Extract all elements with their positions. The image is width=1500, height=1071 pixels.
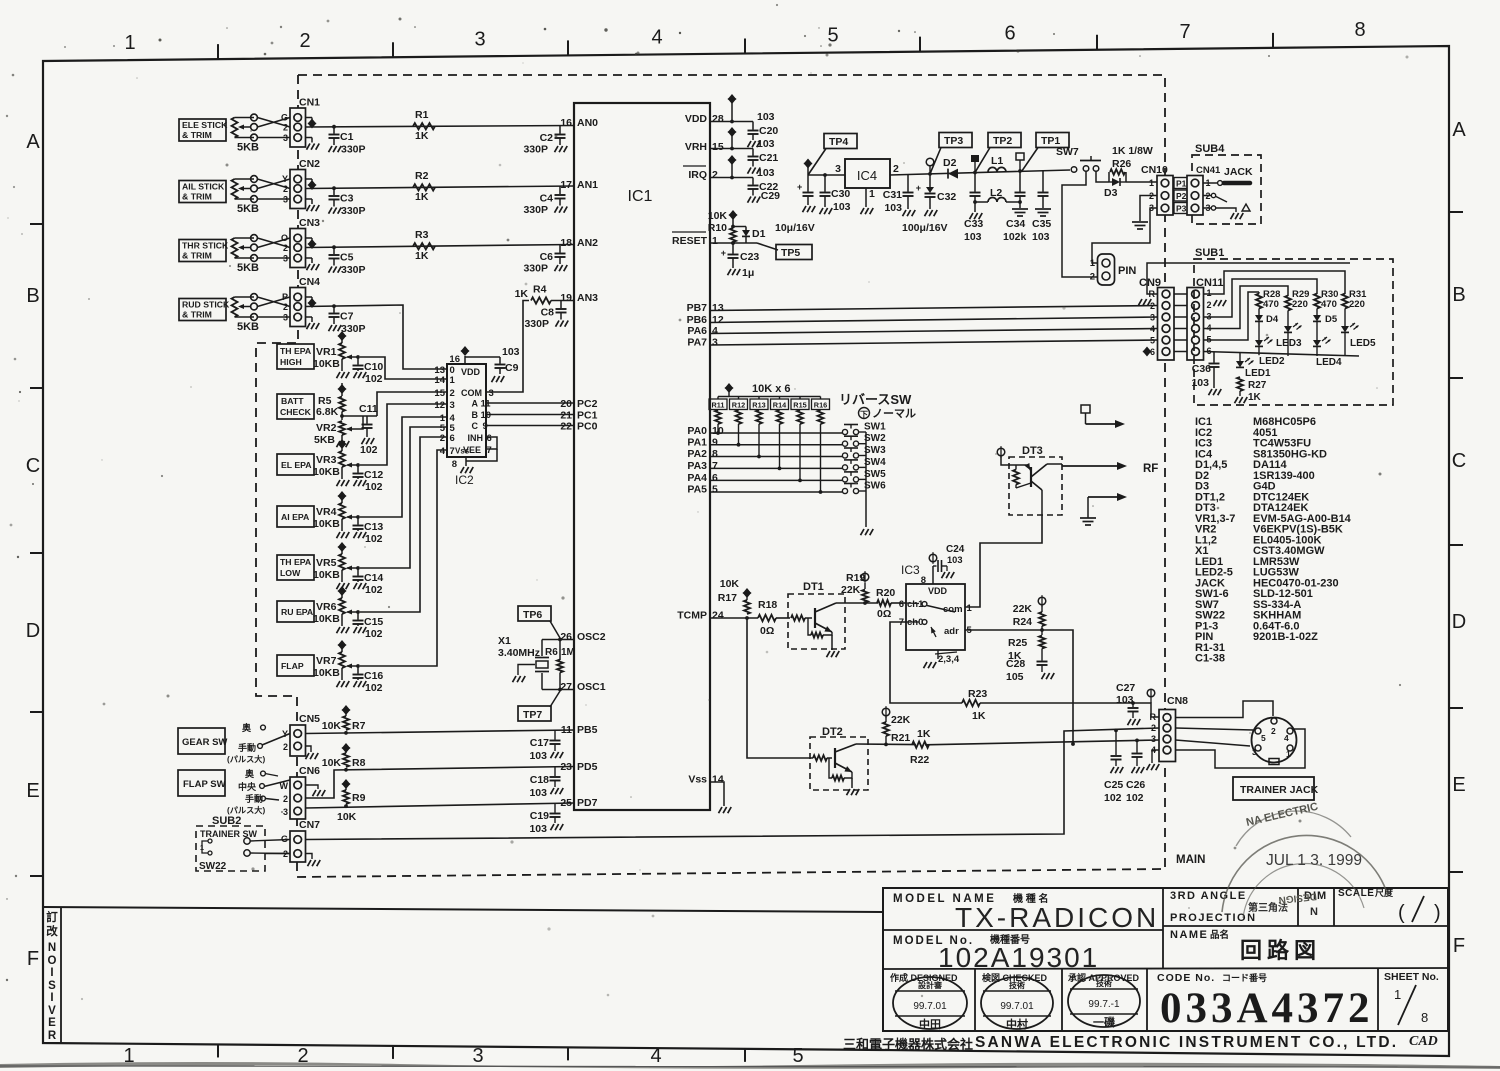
capacitor C14 102 xyxy=(356,566,360,570)
svg-text:AIL STICK: AIL STICK xyxy=(182,182,225,192)
power rail after IC4 xyxy=(890,170,1070,175)
svg-text:1: 1 xyxy=(1207,288,1212,298)
svg-text:R15: R15 xyxy=(793,401,806,410)
wire PA3 line xyxy=(710,467,842,469)
capacitor C25 102 xyxy=(1114,729,1118,733)
diode D3 xyxy=(1112,178,1120,186)
LED1 LMR53W xyxy=(1239,353,1241,361)
svg-text:2: 2 xyxy=(712,169,718,181)
digital transistor DT3 DTA124EK xyxy=(1009,457,1062,515)
wire PA4 line xyxy=(710,479,842,481)
MAIN board dashed border xyxy=(256,75,1165,877)
wire CN11 pin4 to R29 xyxy=(1204,286,1289,329)
svg-text:R: R xyxy=(1150,712,1157,722)
svg-text:PA0: PA0 xyxy=(687,425,707,437)
svg-text:102k: 102k xyxy=(1003,231,1027,243)
connector CN4 xyxy=(290,288,306,327)
svg-text:C30: C30 xyxy=(831,188,850,200)
capacitor C31 100u16V xyxy=(907,175,909,192)
svg-text:R23: R23 xyxy=(968,688,987,700)
svg-text:コード番号: コード番号 xyxy=(1222,972,1267,983)
svg-text:R7: R7 xyxy=(352,720,366,732)
resistor R1 1K xyxy=(413,123,435,129)
wire R5 VR2 junction to IC2 xyxy=(340,414,344,418)
wire IC3 adr to R24 R25 xyxy=(965,629,1042,631)
svg-text:PC0: PC0 xyxy=(577,421,598,433)
svg-text:B: B xyxy=(1452,284,1465,306)
svg-text:TP2: TP2 xyxy=(993,135,1012,147)
svg-text:SW7: SW7 xyxy=(1056,146,1079,158)
svg-text:D3: D3 xyxy=(1104,187,1118,199)
svg-text:1K: 1K xyxy=(917,728,931,740)
test point TP5 xyxy=(757,243,778,250)
capacitor C5 330P xyxy=(333,247,335,254)
wire PB6 to CN9 xyxy=(710,317,1158,323)
svg-text:TRAINER JACK: TRAINER JACK xyxy=(1240,784,1319,796)
svg-text:D: D xyxy=(26,620,40,642)
svg-text:3: 3 xyxy=(835,163,841,175)
svg-text:12: 12 xyxy=(434,400,445,411)
svg-text:103: 103 xyxy=(884,202,902,214)
trim contacts ELE STICK xyxy=(251,114,258,121)
normal label with circle xyxy=(859,408,870,419)
svg-text:VR7: VR7 xyxy=(316,655,337,667)
svg-text:C21: C21 xyxy=(759,152,778,164)
svg-text:102A19301: 102A19301 xyxy=(938,942,1099,973)
connector CN3 xyxy=(290,229,306,268)
ground mark CN9 pin2 xyxy=(1139,299,1143,305)
test point marker open square xyxy=(1018,169,1022,173)
svg-text:7: 7 xyxy=(450,446,455,457)
wire CN11 pin1 to R31 xyxy=(1204,271,1346,294)
svg-text:下: 下 xyxy=(860,410,868,419)
svg-text:103: 103 xyxy=(1032,231,1050,243)
svg-text:103: 103 xyxy=(757,111,775,123)
svg-text:Y: Y xyxy=(282,174,288,184)
capacitor C17 103 xyxy=(554,730,556,739)
svg-text:8: 8 xyxy=(1421,1010,1428,1025)
svg-text:B: B xyxy=(472,410,479,420)
svg-text:VDD: VDD xyxy=(928,586,948,596)
svg-text:+: + xyxy=(721,248,726,258)
wire TCMP output xyxy=(710,617,758,619)
grid row ticks left xyxy=(30,223,43,225)
capacitor C3 330P xyxy=(333,188,335,195)
svg-text:6: 6 xyxy=(1004,23,1015,45)
svg-text:VR5: VR5 xyxy=(316,557,337,569)
ground DT2 xyxy=(847,789,851,795)
test point marker at C32 xyxy=(928,172,932,176)
resistor R28 470 xyxy=(1256,294,1262,309)
wire CN9 R pin to SUB1 xyxy=(1147,263,1350,294)
svg-text:TH EPA: TH EPA xyxy=(280,557,312,567)
wire PA1 line xyxy=(710,444,842,446)
svg-text:10KB: 10KB xyxy=(313,667,340,679)
svg-text:100μ/16V: 100μ/16V xyxy=(902,222,948,234)
resistor R2 1K xyxy=(413,184,435,190)
resistor R20 0ohm xyxy=(877,600,891,606)
svg-text:R21: R21 xyxy=(891,732,910,744)
svg-text:CODE No.: CODE No. xyxy=(1157,972,1215,984)
wire CN8 pin4 ground xyxy=(1152,750,1159,763)
resistor R14 10K xyxy=(779,397,781,400)
svg-text:CN2: CN2 xyxy=(299,158,320,170)
svg-text:GEAR SW: GEAR SW xyxy=(182,737,227,748)
wire VDD pin28 decoupling xyxy=(710,121,753,123)
svg-text:3: 3 xyxy=(283,313,288,323)
capacitor C23 1u xyxy=(731,241,735,245)
wire OSC2 xyxy=(542,639,574,641)
wire CN7 to CN8 pin2 xyxy=(306,728,1160,840)
potentiometer RUD STICK 5KB xyxy=(232,297,238,317)
svg-text:5KB: 5KB xyxy=(314,434,335,446)
IC3 ground pins 2 3 4 xyxy=(937,650,939,659)
svg-text:0Ω: 0Ω xyxy=(877,608,891,620)
svg-text:adr: adr xyxy=(944,626,959,637)
svg-text:SW4: SW4 xyxy=(864,457,886,468)
svg-text:R2: R2 xyxy=(415,170,429,182)
grid column ticks top xyxy=(217,44,219,59)
svg-text:103: 103 xyxy=(502,346,520,358)
ground at CN2 pin3 xyxy=(306,198,313,200)
adjust pot label box TH EPA xyxy=(277,555,314,580)
svg-text:VRH: VRH xyxy=(685,141,707,153)
adjust pot label box TH EPA xyxy=(277,344,314,369)
svg-text:PA5: PA5 xyxy=(687,484,707,496)
svg-text:SUB4: SUB4 xyxy=(1195,143,1225,155)
wire CN10 pin2 to ground xyxy=(1140,196,1157,222)
svg-text:O: O xyxy=(281,233,288,243)
svg-text:5: 5 xyxy=(827,25,838,47)
svg-text:一磯: 一磯 xyxy=(1093,1015,1115,1029)
SUB2 dashed box xyxy=(196,826,265,871)
svg-text:AN0: AN0 xyxy=(577,117,598,129)
svg-text:1: 1 xyxy=(1149,178,1154,188)
svg-text:F: F xyxy=(27,948,39,970)
svg-text:IRQ: IRQ xyxy=(688,169,707,181)
svg-text:4: 4 xyxy=(651,26,662,48)
svg-text:R19: R19 xyxy=(846,572,865,584)
crossed wires ELE STICK to CN1 xyxy=(257,118,290,128)
resistor R18 0ohm xyxy=(758,615,776,621)
svg-text:0Ω: 0Ω xyxy=(760,625,774,637)
svg-text:RU EPA: RU EPA xyxy=(281,607,314,617)
wire CN8 pin3 to trainer jack pin3 xyxy=(1176,740,1251,746)
resistor R9 10K xyxy=(343,790,349,804)
svg-text:103: 103 xyxy=(833,201,851,213)
wire IC2 COM to AN3 via R4 xyxy=(486,301,529,393)
svg-text:設計審: 設計審 xyxy=(918,980,943,990)
wire IC3 ch0 to R23 xyxy=(890,622,962,703)
svg-text:330P: 330P xyxy=(341,264,366,276)
svg-text:R16: R16 xyxy=(814,401,827,410)
trainer jack label xyxy=(1233,777,1314,800)
svg-text:PC2: PC2 xyxy=(577,398,598,410)
svg-text:470: 470 xyxy=(1321,299,1337,310)
svg-text:16: 16 xyxy=(560,117,572,129)
svg-text:17: 17 xyxy=(560,179,572,191)
svg-text:P1: P1 xyxy=(1176,179,1187,189)
svg-text:JACK: JACK xyxy=(1224,166,1253,178)
svg-text:C11: C11 xyxy=(359,403,378,415)
svg-text:R3: R3 xyxy=(415,229,429,241)
svg-text:D5: D5 xyxy=(1325,314,1338,325)
svg-text:CN4: CN4 xyxy=(299,276,320,288)
svg-text:103: 103 xyxy=(757,167,775,179)
multiplexer IC2 box xyxy=(447,364,486,457)
svg-text:COM: COM xyxy=(461,388,482,398)
wire CN4 signal to IC2 mux input 0 xyxy=(306,305,448,369)
svg-text:330P: 330P xyxy=(523,204,548,216)
switch SW6 xyxy=(842,488,847,493)
svg-text:TP7: TP7 xyxy=(523,709,542,721)
capacitor C4 330P xyxy=(559,186,561,194)
svg-text:R11: R11 xyxy=(712,401,725,410)
resistor R21 22K xyxy=(882,708,890,716)
svg-text:6: 6 xyxy=(450,433,455,444)
supply arrow at CN1 pin1 xyxy=(306,117,313,119)
resistor R27 1K xyxy=(1237,377,1243,391)
wire CN8 pin2 to trainer jack pin5 xyxy=(1176,728,1254,730)
svg-text:C34: C34 xyxy=(1006,218,1025,230)
svg-text:3.40MHz: 3.40MHz xyxy=(498,647,540,659)
svg-text:R1: R1 xyxy=(415,109,429,121)
capacitor C35 103 xyxy=(1042,170,1044,191)
svg-text:SANWA ELECTRONIC INSTRUMENT CO: SANWA ELECTRONIC INSTRUMENT CO., LTD. xyxy=(975,1034,1398,1051)
svg-text:1: 1 xyxy=(1394,987,1401,1002)
wire IC2 ch3 to VR3 xyxy=(360,404,447,465)
svg-text:103: 103 xyxy=(964,231,982,243)
svg-text:N: N xyxy=(1310,906,1318,918)
svg-text:10: 10 xyxy=(481,410,492,421)
resistor R15 10K xyxy=(799,397,801,400)
potentiometer AIL STICK 5KB xyxy=(232,179,238,199)
trainer switch SW22 xyxy=(208,839,212,843)
grid column ticks bottom xyxy=(217,1044,219,1057)
svg-text:8: 8 xyxy=(1354,19,1365,41)
svg-text:R20: R20 xyxy=(876,587,895,599)
capacitor C8 330P xyxy=(560,301,562,309)
svg-text:3: 3 xyxy=(474,28,485,50)
stick unit AIL STICK label box xyxy=(179,181,226,203)
svg-text:EL EPA: EL EPA xyxy=(281,460,312,470)
svg-text:SUB1: SUB1 xyxy=(1195,247,1224,259)
svg-text:R6: R6 xyxy=(545,647,558,658)
svg-text:2: 2 xyxy=(283,302,288,312)
svg-text:10KB: 10KB xyxy=(313,569,340,581)
test point TP2 xyxy=(988,133,1021,148)
svg-text:10KB: 10KB xyxy=(313,613,340,625)
svg-text:103: 103 xyxy=(529,750,547,762)
crossed wires AIL STICK to CN2 xyxy=(257,179,290,189)
svg-text:(パルス大): (パルス大) xyxy=(227,805,265,815)
svg-text:C36: C36 xyxy=(1192,363,1211,375)
svg-text:(: ( xyxy=(1398,902,1405,924)
svg-text:三和電子機器株式会社: 三和電子機器株式会社 xyxy=(843,1037,973,1052)
svg-text:VR2: VR2 xyxy=(316,422,337,434)
diode D4 xyxy=(1258,309,1260,316)
svg-text:SHEET No.: SHEET No. xyxy=(1384,971,1439,983)
svg-text:R25: R25 xyxy=(1008,637,1027,649)
svg-text:C6: C6 xyxy=(540,251,554,263)
svg-text:SW22: SW22 xyxy=(199,861,227,872)
svg-text:330P: 330P xyxy=(341,144,366,156)
resistor R22 1K xyxy=(912,742,929,748)
wire TCMP to DT2 xyxy=(747,618,813,758)
svg-text:1M: 1M xyxy=(561,647,575,658)
test point TP3 xyxy=(939,133,972,148)
SUB4 dashed box xyxy=(1192,155,1261,224)
svg-text:1K: 1K xyxy=(1248,392,1262,403)
svg-text:1: 1 xyxy=(869,188,875,200)
svg-text:E: E xyxy=(48,1017,56,1029)
adjust pot label box AI EPA xyxy=(277,506,314,527)
svg-text:7: 7 xyxy=(487,445,492,456)
svg-text:1: 1 xyxy=(712,235,718,247)
capacitor C20 103 xyxy=(752,122,754,130)
svg-text:102: 102 xyxy=(1104,792,1122,804)
svg-text:& TRIM: & TRIM xyxy=(182,310,212,320)
svg-text:3: 3 xyxy=(283,195,288,205)
resistor R7 10K xyxy=(343,716,349,730)
capacitor C12 102 xyxy=(356,463,360,467)
svg-text:R24: R24 xyxy=(1013,616,1032,628)
svg-text:PA3: PA3 xyxy=(687,460,707,472)
svg-text:8: 8 xyxy=(921,575,926,586)
svg-text:S: S xyxy=(48,980,56,992)
test point at C27 xyxy=(1133,703,1159,717)
svg-text:105: 105 xyxy=(1006,671,1024,683)
wire INH VEE to ground xyxy=(486,437,497,449)
svg-text:R8: R8 xyxy=(352,757,366,769)
svg-text:P3: P3 xyxy=(1176,204,1187,214)
svg-text:IC4: IC4 xyxy=(857,168,877,183)
wire IC2 ch5 to VR5 xyxy=(360,427,447,568)
svg-text:奥: 奥 xyxy=(244,768,255,779)
svg-text:103: 103 xyxy=(529,787,547,799)
svg-text:2: 2 xyxy=(1271,726,1276,736)
svg-text:102: 102 xyxy=(365,373,383,385)
svg-text:JUL 1 3. 1999: JUL 1 3. 1999 xyxy=(1266,852,1362,869)
svg-text:R18: R18 xyxy=(758,599,777,611)
wiper arrow VR5 xyxy=(347,567,358,569)
svg-text:C17: C17 xyxy=(530,737,549,749)
svg-text:C26: C26 xyxy=(1126,779,1145,791)
svg-text:R27: R27 xyxy=(1248,380,1267,391)
svg-text:4: 4 xyxy=(650,1045,661,1067)
scan speckles xyxy=(499,164,502,167)
svg-text:R9: R9 xyxy=(352,792,366,804)
svg-text:改: 改 xyxy=(46,924,58,938)
svg-text:22K: 22K xyxy=(1013,603,1033,615)
svg-text:1: 1 xyxy=(450,375,456,386)
svg-text:3: 3 xyxy=(1150,313,1155,323)
svg-text:RESET: RESET xyxy=(672,235,708,247)
svg-text:P2: P2 xyxy=(1176,191,1187,201)
svg-text:16: 16 xyxy=(449,354,460,365)
svg-text:9201B-1-02Z: 9201B-1-02Z xyxy=(1253,631,1318,643)
svg-text:尺度: 尺度 xyxy=(1375,887,1394,898)
resistor R30 470 xyxy=(1314,294,1320,309)
capacitor C27 103 xyxy=(1131,701,1135,705)
svg-text:AN1: AN1 xyxy=(577,179,598,191)
antenna pin P1 xyxy=(1081,405,1090,413)
svg-text:PA4: PA4 xyxy=(687,472,707,484)
round inspection stamp arcs xyxy=(1222,835,1388,912)
stick unit THR STICK label box xyxy=(179,240,226,262)
svg-text:品名: 品名 xyxy=(1210,929,1229,941)
reset circuit R10 10K xyxy=(710,242,757,244)
svg-text:5: 5 xyxy=(712,484,718,496)
wire Vss pin14 ground xyxy=(710,782,724,806)
svg-text:2: 2 xyxy=(1090,272,1095,283)
wiper arrow VR3 xyxy=(347,464,358,466)
svg-text:OSC1: OSC1 xyxy=(577,681,606,693)
svg-text:5KB: 5KB xyxy=(237,203,259,215)
svg-text:& TRIM: & TRIM xyxy=(182,251,212,261)
svg-text:C25: C25 xyxy=(1104,779,1123,791)
wiper arrow VR1 xyxy=(347,356,358,358)
SUB1 dashed box xyxy=(1194,259,1393,405)
wire PB7 to CN9 xyxy=(710,306,1158,311)
svg-text:10K: 10K xyxy=(720,578,740,590)
trim contacts AIL STICK xyxy=(251,176,258,183)
svg-text:LED4: LED4 xyxy=(1316,357,1342,368)
capacitor C7 330P xyxy=(333,306,335,312)
digital transistor DT1 DTC124EK xyxy=(788,594,845,649)
wire IC2 ch6 to VR6 xyxy=(360,437,447,612)
svg-text:ノーマル: ノーマル xyxy=(872,408,916,420)
svg-text:1μ: 1μ xyxy=(742,267,754,279)
diode D1 xyxy=(733,226,746,228)
potentiometer THR STICK 5KB xyxy=(232,238,238,258)
svg-text:C5: C5 xyxy=(340,252,354,264)
svg-text:3: 3 xyxy=(1151,734,1156,744)
svg-text:102: 102 xyxy=(365,628,383,640)
svg-text:I: I xyxy=(50,967,53,979)
capacitor C36 103 xyxy=(1213,352,1215,363)
svg-text:10K x 6: 10K x 6 xyxy=(752,383,791,395)
batt check label box xyxy=(277,394,314,419)
diode D5 xyxy=(1316,309,1318,316)
capacitor C6 330P xyxy=(559,245,561,253)
ground at CN3 pin3 xyxy=(306,257,313,259)
svg-text:3: 3 xyxy=(489,388,494,399)
wire PA6 to CN9 xyxy=(710,329,1158,334)
svg-text:DT1: DT1 xyxy=(803,581,824,593)
switch SW2 xyxy=(842,441,847,446)
svg-text:回路図: 回路図 xyxy=(1240,938,1321,963)
svg-text:C2: C2 xyxy=(540,132,554,144)
svg-text:6.8K: 6.8K xyxy=(316,406,339,418)
capacitor C2 330P xyxy=(559,126,561,134)
resistor R19 22K xyxy=(861,573,869,581)
adjust pot label box EL EPA xyxy=(277,454,314,475)
svg-text:VR6: VR6 xyxy=(316,601,337,613)
wire IC3 com to DT3 xyxy=(965,515,1042,607)
svg-text:SW5: SW5 xyxy=(864,469,886,480)
svg-text:R12: R12 xyxy=(732,401,745,410)
wiper arrow VR2 xyxy=(347,416,363,429)
svg-text:VR1: VR1 xyxy=(316,346,337,358)
svg-text:3: 3 xyxy=(283,133,288,143)
wire OSC1 xyxy=(542,689,574,691)
adjust pot label box FLAP xyxy=(277,655,314,676)
wire PB5 line xyxy=(306,730,575,734)
capacitor C19 103 xyxy=(554,803,556,812)
svg-text:6: 6 xyxy=(487,433,492,444)
svg-text:033A4372: 033A4372 xyxy=(1160,985,1374,1032)
